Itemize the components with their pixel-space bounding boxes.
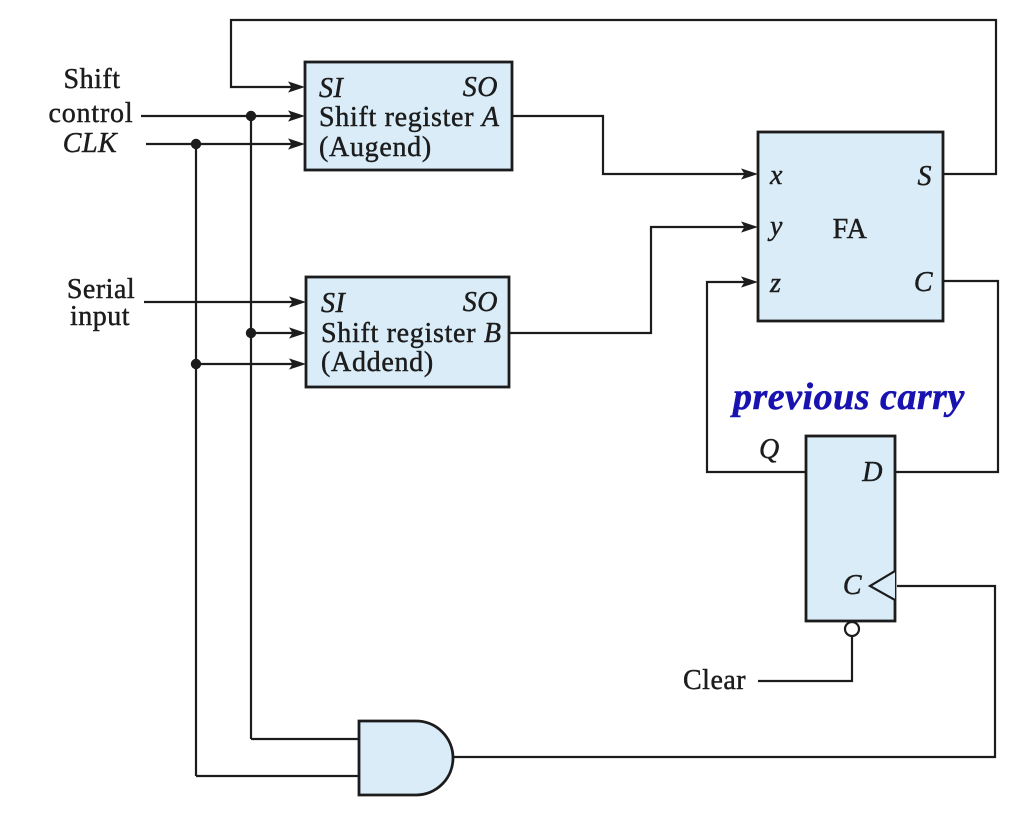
wire: FA C output to flip-flop D (896, 281, 998, 472)
svg-text:(Addend): (Addend) (321, 347, 434, 378)
wire: Clear input to flip-flop bubble (758, 637, 852, 681)
junction node: shift control / register B (246, 328, 256, 338)
wire: CLK branch to register B (196, 358, 306, 369)
flip-flop clear bubble (845, 622, 859, 636)
wire: AND gate input 2 (196, 775, 359, 777)
svg-text:Q: Q (759, 434, 780, 465)
shift register A box (305, 62, 512, 170)
svg-text:CLK: CLK (63, 128, 118, 159)
wire: register B SO to FA y (509, 221, 758, 333)
svg-text:Shift register A: Shift register A (319, 102, 500, 133)
shift register B box (306, 277, 509, 387)
wire: AND gate output to flip-flop clock C (453, 586, 995, 757)
junction node: CLK / register B (191, 359, 201, 369)
AND gate (359, 721, 453, 795)
junction node: shift control / register A (246, 111, 256, 121)
wire: register A SO to FA x (512, 116, 758, 180)
full adder FA box (758, 132, 943, 321)
svg-text:Shift: Shift (64, 64, 121, 95)
svg-text:Clear: Clear (683, 665, 746, 696)
wire: flip-flop Q to FA z (707, 276, 806, 472)
svg-text:x: x (769, 160, 783, 191)
wire: AND gate input 1 (251, 738, 359, 740)
svg-text:C: C (914, 267, 933, 298)
wire: CLK input (146, 138, 305, 149)
label: Shift control (49, 64, 134, 129)
wire: Serial input (144, 296, 306, 307)
svg-text:Shift register B: Shift register B (321, 318, 502, 349)
svg-text:FA: FA (833, 214, 868, 245)
wire: S feedback loop (FA S output to Shift register A SI) (231, 20, 996, 174)
svg-text:input: input (70, 301, 130, 332)
junction node: CLK / register A (191, 139, 201, 149)
svg-text:(Augend): (Augend) (319, 132, 432, 163)
svg-text:SI: SI (321, 288, 347, 319)
svg-text:SO: SO (463, 72, 498, 103)
svg-text:z: z (769, 268, 781, 299)
svg-text:C: C (843, 570, 862, 601)
label: Serial input (67, 274, 135, 332)
flip-flop clock edge wedge (870, 571, 895, 600)
svg-text:y: y (767, 211, 783, 242)
svg-text:SI: SI (319, 73, 345, 104)
wire: CLK vertical bus (195, 144, 197, 776)
svg-text:S: S (918, 161, 933, 192)
svg-text:previous carry: previous carry (730, 376, 965, 418)
svg-text:D: D (861, 457, 883, 488)
wire: shift control branch to register B (251, 327, 306, 338)
svg-text:control: control (49, 98, 134, 129)
D flip-flop box (806, 436, 895, 621)
wire: shift control vertical bus (250, 116, 252, 739)
wire: Shift control input (141, 110, 305, 121)
svg-text:SO: SO (463, 287, 498, 318)
